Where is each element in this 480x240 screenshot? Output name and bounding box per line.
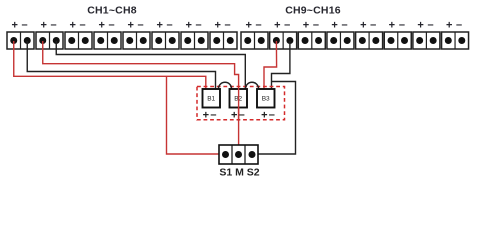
svg-text:+: + <box>303 19 309 31</box>
svg-text:–: – <box>196 19 202 31</box>
terminal pair CH5 polarity labels <box>127 19 143 31</box>
terminal pair CH16 polarity labels <box>446 19 462 31</box>
svg-text:S1 M S2: S1 M S2 <box>219 167 259 179</box>
wire CH10- to B3- (black) <box>272 41 290 89</box>
battery B2 <box>230 89 248 108</box>
svg-text:–: – <box>109 19 115 31</box>
terminal pair CH15 <box>413 32 440 49</box>
svg-text:+: + <box>214 19 220 31</box>
terminal pair CH9 polarity labels <box>245 19 261 31</box>
label S1 M S2 <box>219 167 259 179</box>
svg-text:+: + <box>274 19 280 31</box>
svg-text:+: + <box>245 19 251 31</box>
svg-text:–: – <box>284 19 290 31</box>
svg-text:–: – <box>313 19 319 31</box>
svg-text:–: – <box>167 19 173 31</box>
wire M through B2 (red overlay) <box>238 88 240 121</box>
svg-text:+: + <box>331 19 337 31</box>
terminal pair CH7 <box>181 32 208 49</box>
terminal pair CH14 polarity labels <box>389 19 405 31</box>
terminal pair CH10 polarity labels <box>274 19 290 31</box>
svg-text:B3: B3 <box>262 96 270 103</box>
terminal pair CH6 <box>152 32 179 49</box>
svg-text:–: – <box>399 19 405 31</box>
svg-text:+: + <box>127 19 133 31</box>
svg-text:–: – <box>138 19 144 31</box>
terminal pair CH11 polarity labels <box>303 19 319 31</box>
terminal pair CH14 <box>384 32 411 49</box>
svg-text:+: + <box>261 110 267 122</box>
svg-text:+: + <box>231 110 237 122</box>
terminal pair CH7 polarity labels <box>185 19 201 31</box>
svg-text:+: + <box>360 19 366 31</box>
wire CH1+ to B1+ (red) <box>14 41 206 89</box>
jumper arc B1- to B2+ <box>219 82 232 88</box>
svg-text:–: – <box>427 19 433 31</box>
svg-text:+: + <box>11 19 17 31</box>
wire CH2+ to M (red) <box>43 41 239 155</box>
svg-text:–: – <box>239 109 245 121</box>
terminal pair CH11 <box>298 32 325 49</box>
svg-text:+: + <box>203 110 209 122</box>
svg-text:–: – <box>269 109 275 121</box>
svg-text:–: – <box>456 19 462 31</box>
wire CH10+ to B3+ (red) <box>264 41 277 89</box>
wire CH1- to B1- (black) <box>27 41 215 89</box>
battery B1 <box>203 89 221 108</box>
terminal pair CH12 <box>327 32 354 49</box>
label CH1~CH8 <box>87 5 137 17</box>
terminal pair CH6 polarity labels <box>156 19 172 31</box>
battery pack dashed enclosure <box>197 87 285 120</box>
svg-text:+: + <box>446 19 452 31</box>
svg-text:+: + <box>156 19 162 31</box>
svg-text:–: – <box>225 19 231 31</box>
terminal pair CH2 polarity labels <box>40 19 56 31</box>
battery B2 polarity labels <box>231 109 245 122</box>
svg-text:+: + <box>185 19 191 31</box>
svg-text:–: – <box>256 19 262 31</box>
terminal pair CH3 polarity labels <box>69 19 85 31</box>
terminal pair CH13 polarity labels <box>360 19 376 31</box>
svg-text:–: – <box>342 19 348 31</box>
wire B3- to S2 (black) <box>252 82 296 155</box>
svg-text:–: – <box>22 19 28 31</box>
svg-text:B1: B1 <box>207 96 215 103</box>
terminal pair CH4 polarity labels <box>98 19 114 31</box>
wire tap to S1 (red) <box>167 76 227 154</box>
label CH9~CH16 <box>285 5 341 17</box>
battery B1 polarity labels <box>203 109 217 122</box>
terminal pair CH1 polarity labels <box>11 19 27 31</box>
terminal pair CH12 polarity labels <box>331 19 347 31</box>
terminal pair CH15 polarity labels <box>417 19 433 31</box>
battery B3 <box>257 89 275 108</box>
svg-text:+: + <box>417 19 423 31</box>
svg-text:–: – <box>51 19 57 31</box>
svg-text:–: – <box>370 19 376 31</box>
terminal pair CH16 <box>442 32 469 49</box>
svg-text:+: + <box>40 19 46 31</box>
terminal pair CH1 <box>7 32 34 49</box>
wire CH2- to B2- (black) <box>56 41 245 89</box>
svg-text:+: + <box>69 19 75 31</box>
terminal pair CH2 <box>36 32 63 49</box>
svg-text:+: + <box>98 19 104 31</box>
terminal pair CH4 <box>94 32 121 49</box>
jumper arc B2- to B3+ <box>246 82 259 88</box>
terminal pair CH8 <box>210 32 237 49</box>
terminal pair CH5 <box>123 32 150 49</box>
svg-text:–: – <box>210 109 216 121</box>
terminal pair CH13 <box>356 32 383 49</box>
svg-text:+: + <box>389 19 395 31</box>
battery B3 polarity labels <box>261 109 275 122</box>
svg-text:–: – <box>80 19 86 31</box>
terminal pair CH8 polarity labels <box>214 19 230 31</box>
terminal pair CH9 <box>241 32 268 49</box>
terminal pair CH3 <box>65 32 92 49</box>
terminal pair CH10 <box>270 32 297 49</box>
terminal block S1 M S2 <box>219 145 258 164</box>
svg-text:CH9~CH16: CH9~CH16 <box>285 5 341 17</box>
svg-text:CH1~CH8: CH1~CH8 <box>87 5 137 17</box>
